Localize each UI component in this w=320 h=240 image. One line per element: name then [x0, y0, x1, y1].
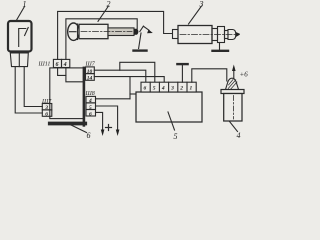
plunger cap (item 2)	[68, 23, 80, 40]
wire Sh7 pin14 to unit pin 4	[94, 77, 164, 83]
svg-text:14: 14	[87, 76, 93, 82]
wire switch to connector Sh7 pin 3	[24, 67, 42, 107]
svg-text:6: 6	[89, 111, 92, 117]
internal wire from Sh11 pin6	[58, 68, 66, 76]
wire to unit top-left corner	[130, 93, 138, 95]
label 1	[16, 0, 27, 21]
harness thick bottom bar	[50, 122, 85, 126]
label 5	[168, 112, 178, 141]
connector Sh7 pin 6	[42, 110, 52, 118]
label 3	[189, 0, 204, 24]
ground under spark plug	[213, 50, 229, 52]
plunger body (item 2)	[79, 24, 108, 38]
spark plug body (item 3)	[178, 26, 212, 44]
label 4	[230, 122, 241, 141]
switch S1 contact symbol	[19, 28, 29, 47]
svg-text:Ш11: Ш11	[38, 62, 51, 68]
svg-text:4: 4	[237, 131, 241, 140]
arrow down right	[116, 130, 120, 137]
switch S1 base	[10, 53, 28, 67]
connector Sh7 pin 14	[86, 74, 95, 82]
center line of item 2	[81, 31, 132, 33]
connector Sh11 pin 6	[53, 59, 61, 68]
wire Sh8 pin4	[96, 98, 131, 100]
svg-text:3: 3	[170, 86, 174, 92]
svg-text:2: 2	[179, 86, 183, 92]
breaker lever	[139, 26, 153, 48]
svg-text:6: 6	[45, 112, 48, 118]
cam unit flange	[221, 90, 244, 94]
spark plug neck	[225, 31, 229, 39]
svg-text:6: 6	[144, 86, 147, 92]
cam unit body	[224, 94, 242, 122]
wire branch down to unit case	[129, 77, 131, 99]
harness thick right edge	[83, 68, 86, 126]
wire Sh11 pin4 to breaker contact (inner top wire)	[66, 19, 137, 60]
wire Sh8 pin6 to battery plus	[96, 112, 103, 130]
ground under breaker	[134, 49, 147, 51]
spark plug insulator tip	[228, 30, 236, 40]
harness box (item 6)	[50, 68, 84, 119]
ground above pin 2	[177, 63, 187, 65]
spark plug terminal nipple (item 3)	[173, 30, 179, 39]
cam unit dome (item 4)	[226, 78, 239, 89]
center line of item 4	[233, 96, 235, 120]
switch S1 (item 1) body	[8, 21, 32, 52]
center line of item 3	[180, 34, 235, 36]
label 2	[98, 0, 111, 21]
connector Sh7 pin 10	[86, 67, 95, 75]
wire Sh7 pin10 to unit pin 6	[94, 70, 146, 82]
wire unit pin 1 to breaker cam unit	[192, 69, 227, 82]
svg-text:1: 1	[190, 86, 193, 92]
spark plug ring	[212, 29, 218, 41]
arrow down left	[101, 130, 105, 137]
internal wire from Sh11 pin4 into bundle	[66, 68, 83, 82]
svg-text:5: 5	[174, 132, 178, 141]
wire Sh11 pin6 to plug terminal (outer top wire)	[58, 11, 173, 59]
plunger rod (item 2)	[108, 28, 134, 36]
connector Sh8 pin 6	[86, 110, 96, 118]
connector Sh8 pin 4	[86, 96, 96, 104]
plunger dark tip	[134, 29, 138, 35]
plus sign	[106, 125, 112, 131]
connector Sh8 pin 5	[86, 103, 96, 111]
spark plug nut	[218, 27, 225, 43]
wire switch to connector Sh7 pin 6	[15, 67, 42, 113]
wire branch up to unit pin 5	[120, 62, 155, 82]
electronic unit (item 5)	[136, 92, 202, 122]
svg-text:4: 4	[161, 86, 165, 92]
svg-text:5: 5	[153, 86, 156, 92]
unit pin row	[141, 82, 196, 92]
arrow up +6	[232, 65, 236, 79]
wire unit pin 2 to ground	[181, 65, 183, 82]
connector Sh11 pin 4	[62, 59, 70, 68]
spark plug electrode	[236, 32, 240, 37]
connector Sh7 pin 3	[42, 104, 52, 112]
label 6	[70, 125, 91, 141]
svg-text:+6: +6	[240, 71, 249, 79]
wire plug shell to ground	[219, 43, 221, 50]
wire Sh8 pin5 to battery plus	[96, 106, 118, 131]
